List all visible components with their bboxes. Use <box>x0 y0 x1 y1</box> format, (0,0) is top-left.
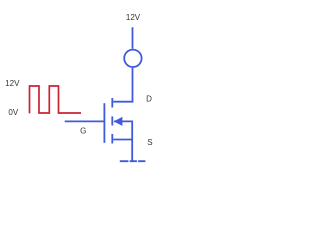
svg-text:G: G <box>80 127 86 136</box>
svg-text:S: S <box>147 138 152 147</box>
svg-text:D: D <box>146 94 152 103</box>
svg-text:0V: 0V <box>8 108 18 117</box>
svg-text:12V: 12V <box>126 13 141 22</box>
svg-text:12V: 12V <box>5 79 20 88</box>
